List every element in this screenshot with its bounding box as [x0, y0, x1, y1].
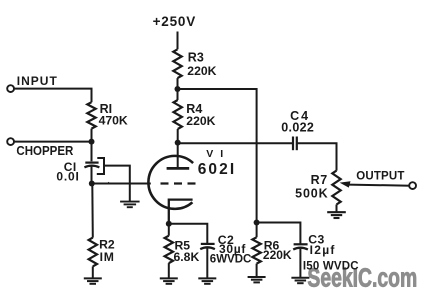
wire node to C3: [257, 223, 301, 244]
wire plate node to C4: [178, 142, 293, 144]
svg-text:500K: 500K: [295, 187, 328, 201]
tube V1 envelope: [148, 156, 193, 209]
wire R2 to ground: [92, 266, 94, 278]
svg-text:R7: R7: [311, 173, 328, 187]
svg-text:6.8K: 6.8K: [174, 250, 200, 264]
ground under C2: [198, 277, 216, 279]
svg-text:I: I: [220, 148, 223, 160]
V1 plate lead: [177, 143, 179, 167]
wire grid node to tube: [92, 183, 151, 185]
resistor R3: [173, 49, 181, 78]
terminal CHOPPER jack: [7, 138, 14, 145]
resistor R2: [89, 238, 97, 267]
terminal INPUT jack: [7, 85, 14, 92]
ground shield of C1: [120, 201, 140, 203]
svg-text:CHOPPER: CHOPPER: [16, 143, 73, 158]
svg-text:R3: R3: [188, 50, 204, 64]
capacitor C4 right plate: [296, 137, 298, 151]
capacitor C1 curved plate: [84, 166, 99, 168]
resistor R4: [174, 100, 182, 129]
C1 shield bracket: [97, 158, 104, 174]
potentiometer R7: [332, 171, 340, 205]
V1 plate: [167, 167, 190, 170]
junction R6/C3 node: [254, 220, 260, 226]
wire cathode node to C2: [169, 224, 208, 244]
ground under R6: [248, 276, 266, 278]
svg-text:0.022: 0.022: [281, 120, 314, 134]
svg-text:INPUT: INPUT: [17, 74, 58, 88]
svg-text:470K: 470K: [99, 113, 128, 127]
ink speck on grid wire: [105, 182, 110, 185]
wire C4 to R7 top: [297, 143, 337, 170]
junction plate node: [175, 140, 181, 146]
ground under C3: [291, 277, 309, 279]
svg-text:+250V: +250V: [153, 14, 196, 29]
wire node to R6: [256, 223, 258, 238]
wire R3 to node A: [177, 78, 179, 100]
wire grid node down to R2: [91, 184, 94, 238]
junction chopper node: [89, 139, 95, 145]
wire R7 to ground: [336, 205, 338, 213]
ground under R2: [84, 277, 102, 279]
wire supply to R3: [177, 32, 179, 50]
terminal OUTPUT jack: [409, 182, 416, 189]
capacitor C3 straight plate: [294, 243, 308, 245]
svg-text:0.0I: 0.0I: [56, 170, 79, 184]
svg-text:I50 WVDC: I50 WVDC: [303, 260, 359, 272]
svg-text:V: V: [206, 148, 213, 160]
capacitor C1 straight plate: [85, 162, 98, 164]
svg-text:220K: 220K: [186, 114, 215, 128]
wire chopper node down to C1: [91, 142, 93, 162]
wire C1 to grid node: [91, 167, 93, 184]
wire chopper terminal to node: [14, 141, 92, 143]
svg-text:220K: 220K: [187, 64, 216, 78]
svg-text:6WVDC: 6WVDC: [210, 254, 252, 266]
wire R4 to plate node: [177, 129, 179, 143]
V1 cathode: [169, 200, 193, 224]
svg-text:OUTPUT: OUTPUT: [356, 171, 404, 183]
wire input to R1 top: [14, 89, 92, 103]
V1 grid (dashed): [161, 182, 196, 184]
R7 wiper arrowhead: [340, 181, 351, 187]
R7 wiper arm wire: [349, 185, 412, 186]
junction cathode node: [166, 221, 172, 227]
wire R6 to ground: [256, 264, 258, 277]
wire R5 to ground: [168, 263, 170, 278]
svg-text:602I: 602I: [198, 161, 237, 178]
wire R1 bottom to chopper node: [91, 129, 93, 142]
wire C2 to ground: [206, 248, 208, 278]
resistor R1: [87, 102, 95, 128]
capacitor C2 straight plate: [201, 243, 215, 245]
junction grid node: [89, 181, 95, 187]
capacitor C2 curved plate: [200, 247, 215, 249]
wire C3 to ground: [299, 249, 301, 278]
ground under R5: [160, 277, 178, 279]
wire node A to decoupling rail: [178, 89, 257, 223]
resistor R6: [252, 237, 260, 263]
resistor R5: [165, 236, 173, 263]
wire cathode node to R5: [168, 224, 170, 236]
ground under R7: [327, 211, 346, 213]
svg-text:220K: 220K: [263, 248, 292, 262]
svg-text:I2µf: I2µf: [310, 243, 336, 257]
capacitor C3 curved plate: [293, 248, 308, 250]
junction node A (R3/R4): [175, 86, 181, 92]
wire C1 shield to ground: [104, 166, 130, 202]
svg-text:IM: IM: [100, 250, 115, 264]
capacitor C4 left plate: [292, 137, 294, 151]
